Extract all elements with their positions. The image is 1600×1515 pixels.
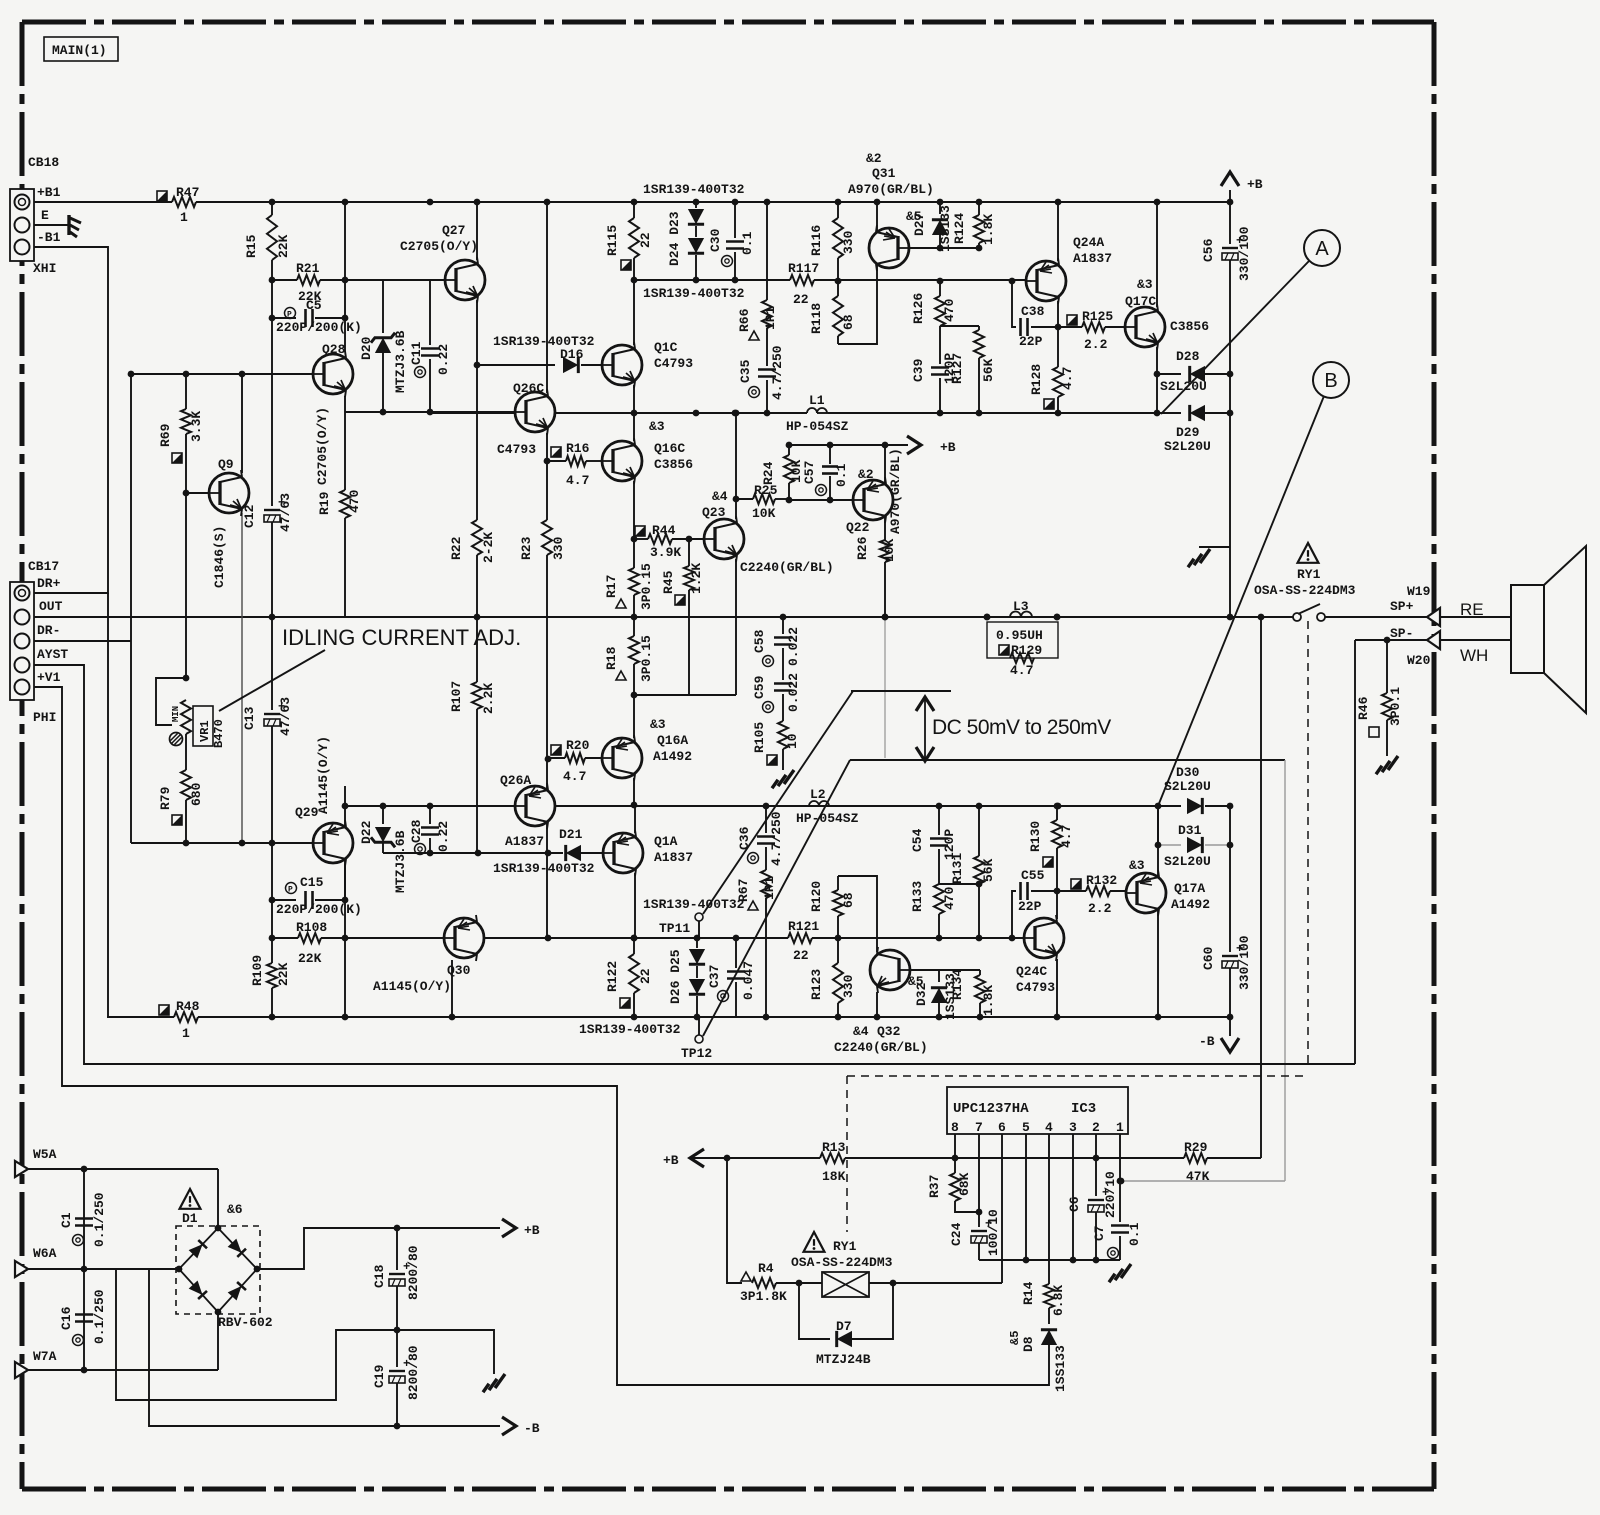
svg-text:&6: &6 xyxy=(227,1202,243,1217)
svg-text:HP-054SZ: HP-054SZ xyxy=(786,419,849,434)
svg-text:22: 22 xyxy=(793,948,809,963)
svg-text:56K: 56K xyxy=(981,858,996,882)
svg-text:330/100: 330/100 xyxy=(1237,226,1252,281)
svg-text:3P0.15: 3P0.15 xyxy=(639,635,654,682)
svg-text:OSA-SS-224DM3: OSA-SS-224DM3 xyxy=(1254,583,1356,598)
svg-text:RE: RE xyxy=(1460,600,1484,619)
svg-text:22K: 22K xyxy=(276,234,291,258)
svg-text:IDLING CURRENT ADJ.: IDLING CURRENT ADJ. xyxy=(282,625,521,650)
svg-text:C24: C24 xyxy=(949,1222,964,1246)
svg-text:1P1: 1P1 xyxy=(763,306,778,330)
svg-text:3P0.1: 3P0.1 xyxy=(1388,687,1403,726)
svg-text:R47: R47 xyxy=(176,185,199,200)
svg-text:R37: R37 xyxy=(927,1175,942,1198)
svg-text:R26: R26 xyxy=(855,536,870,560)
svg-text:Q22: Q22 xyxy=(846,520,870,535)
svg-text:0.1: 0.1 xyxy=(834,463,849,487)
svg-text:-B1: -B1 xyxy=(37,230,61,245)
svg-text:C54: C54 xyxy=(910,828,925,852)
svg-text:C4793: C4793 xyxy=(654,356,693,371)
svg-text:330: 330 xyxy=(551,536,566,560)
svg-text:R133: R133 xyxy=(910,881,925,912)
svg-text:R18: R18 xyxy=(604,646,619,670)
svg-text:22K: 22K xyxy=(276,962,291,986)
svg-text:A1492: A1492 xyxy=(653,749,692,764)
svg-text:D29: D29 xyxy=(1176,425,1200,440)
svg-text:R125: R125 xyxy=(1082,309,1113,324)
svg-text:10K: 10K xyxy=(882,538,897,562)
svg-text:Q9: Q9 xyxy=(218,457,234,472)
svg-text:22K: 22K xyxy=(298,951,322,966)
svg-text:C13: C13 xyxy=(242,706,257,730)
svg-text:C38: C38 xyxy=(1021,304,1045,319)
svg-text:MIN: MIN xyxy=(171,706,181,722)
svg-text:Q16C: Q16C xyxy=(654,441,685,456)
svg-text:-B: -B xyxy=(524,1421,540,1436)
svg-text:0.022: 0.022 xyxy=(786,673,801,712)
svg-text:8200/80: 8200/80 xyxy=(406,1245,421,1300)
svg-text:TP12: TP12 xyxy=(681,1046,712,1061)
svg-text:RY1: RY1 xyxy=(1297,567,1321,582)
svg-text:DC 50mV to 250mV: DC 50mV to 250mV xyxy=(932,716,1111,739)
svg-text:AYST: AYST xyxy=(37,647,68,662)
svg-text:R22: R22 xyxy=(449,536,464,560)
svg-text:S2L20U: S2L20U xyxy=(1164,439,1211,454)
svg-text:R134: R134 xyxy=(950,969,965,1000)
svg-text:47K: 47K xyxy=(1186,1169,1210,1184)
svg-text:8200/80: 8200/80 xyxy=(406,1345,421,1400)
svg-text:A1492: A1492 xyxy=(1171,897,1210,912)
svg-text:R121: R121 xyxy=(788,919,819,934)
svg-text:L2: L2 xyxy=(810,787,826,802)
svg-text:R122: R122 xyxy=(605,961,620,992)
svg-text:3P0.15: 3P0.15 xyxy=(639,563,654,610)
svg-text:L1: L1 xyxy=(809,393,825,408)
svg-text:R108: R108 xyxy=(296,920,327,935)
svg-text:C3856: C3856 xyxy=(654,457,693,472)
svg-text:C60: C60 xyxy=(1201,946,1216,970)
svg-text:R131: R131 xyxy=(950,853,965,884)
svg-text:D32: D32 xyxy=(914,982,929,1006)
svg-text:Q31: Q31 xyxy=(872,166,896,181)
svg-text:W19: W19 xyxy=(1407,584,1431,599)
svg-text:R105: R105 xyxy=(752,722,767,753)
svg-text:5: 5 xyxy=(1022,1120,1030,1135)
svg-text:R128: R128 xyxy=(1029,364,1044,395)
svg-text:R15: R15 xyxy=(244,234,259,258)
svg-text:Q16A: Q16A xyxy=(657,733,688,748)
svg-text:D21: D21 xyxy=(559,827,583,842)
svg-text:R4: R4 xyxy=(758,1261,774,1276)
svg-text:220P/200(K): 220P/200(K) xyxy=(276,902,362,917)
svg-text:Q1C: Q1C xyxy=(654,340,678,355)
svg-text:C39: C39 xyxy=(911,358,926,382)
svg-text:R117: R117 xyxy=(788,261,819,276)
svg-text:100/10: 100/10 xyxy=(986,1209,1001,1256)
svg-text:C55: C55 xyxy=(1021,868,1045,883)
svg-text:6.8K: 6.8K xyxy=(1051,1285,1066,1316)
svg-text:+B: +B xyxy=(524,1223,540,1238)
svg-text:R16: R16 xyxy=(566,441,590,456)
svg-text:0.1/250: 0.1/250 xyxy=(92,1289,107,1344)
svg-text:C58: C58 xyxy=(752,629,767,653)
svg-text:&3: &3 xyxy=(649,419,665,434)
svg-text:A1837: A1837 xyxy=(654,850,693,865)
svg-text:D8: D8 xyxy=(1021,1336,1036,1352)
svg-text:C36: C36 xyxy=(737,826,752,850)
svg-text:56K: 56K xyxy=(981,358,996,382)
svg-text:1: 1 xyxy=(182,1026,190,1041)
svg-text:A970(GR/BL): A970(GR/BL) xyxy=(848,182,934,197)
svg-text:C6: C6 xyxy=(1067,1196,1082,1212)
svg-text:22: 22 xyxy=(793,292,809,307)
svg-text:&4: &4 xyxy=(712,489,728,504)
svg-text:R132: R132 xyxy=(1086,873,1117,888)
svg-text:OUT: OUT xyxy=(39,599,63,614)
svg-text:Q24A: Q24A xyxy=(1073,235,1104,250)
svg-text:D24 D23: D24 D23 xyxy=(667,211,682,266)
svg-text:+B: +B xyxy=(663,1153,679,1168)
svg-text:Q27: Q27 xyxy=(442,223,465,238)
svg-text:2.2K: 2.2K xyxy=(481,683,496,714)
svg-text:1P1: 1P1 xyxy=(762,876,777,900)
svg-text:D20: D20 xyxy=(359,336,374,360)
svg-text:SP+: SP+ xyxy=(1390,599,1414,614)
svg-text:MTZJ24B: MTZJ24B xyxy=(816,1352,871,1367)
svg-text:+V1: +V1 xyxy=(37,670,61,685)
svg-text:0.1: 0.1 xyxy=(1127,1222,1142,1246)
svg-text:3: 3 xyxy=(1069,1120,1077,1135)
svg-text:W20: W20 xyxy=(1407,653,1431,668)
svg-text:R124: R124 xyxy=(952,213,967,244)
svg-text:R45: R45 xyxy=(661,570,676,594)
svg-text:RBV-602: RBV-602 xyxy=(218,1315,273,1330)
svg-text:R109: R109 xyxy=(250,955,265,986)
svg-text:P: P xyxy=(287,311,292,320)
svg-text:4.7/250: 4.7/250 xyxy=(770,345,785,400)
svg-text:DR+: DR+ xyxy=(37,576,61,591)
svg-text:C30: C30 xyxy=(708,228,723,252)
svg-text:OSA-SS-224DM3: OSA-SS-224DM3 xyxy=(791,1255,893,1270)
svg-text:47/63: 47/63 xyxy=(278,697,293,736)
svg-text:R21: R21 xyxy=(296,261,320,276)
svg-text:&4: &4 xyxy=(853,1024,869,1039)
svg-text:+B: +B xyxy=(940,440,956,455)
svg-text:A1837: A1837 xyxy=(505,834,544,849)
svg-text:C19: C19 xyxy=(372,1364,387,1388)
svg-text:120P: 120P xyxy=(942,353,957,384)
svg-text:C7: C7 xyxy=(1092,1225,1107,1241)
svg-text:0.22: 0.22 xyxy=(436,344,451,375)
svg-text:68: 68 xyxy=(841,892,856,908)
svg-text:R20: R20 xyxy=(566,738,590,753)
svg-text:E: E xyxy=(41,208,49,223)
svg-text:D22: D22 xyxy=(359,820,374,844)
svg-text:R23: R23 xyxy=(519,536,534,560)
svg-text:IC3: IC3 xyxy=(1071,1101,1096,1117)
svg-text:&3: &3 xyxy=(1129,858,1145,873)
svg-text:&5: &5 xyxy=(1008,1331,1022,1345)
svg-text:C56: C56 xyxy=(1201,238,1216,262)
svg-text:330: 330 xyxy=(841,230,856,254)
svg-text:C5: C5 xyxy=(306,298,322,313)
svg-text:R24: R24 xyxy=(761,461,776,485)
svg-text:R14: R14 xyxy=(1021,1281,1036,1305)
svg-text:4.7/250: 4.7/250 xyxy=(769,811,784,866)
svg-text:8: 8 xyxy=(951,1120,959,1135)
svg-text:330: 330 xyxy=(841,974,856,998)
svg-text:1SS133: 1SS133 xyxy=(1053,1345,1068,1392)
svg-text:C4793: C4793 xyxy=(1016,980,1055,995)
svg-text:470: 470 xyxy=(942,886,957,910)
svg-text:C18: C18 xyxy=(372,1264,387,1288)
svg-text:1SR139-400T32: 1SR139-400T32 xyxy=(643,286,745,301)
svg-text:PHI: PHI xyxy=(33,710,56,725)
svg-text:R120: R120 xyxy=(809,881,824,912)
svg-text:B: B xyxy=(1324,370,1337,392)
svg-text:D28: D28 xyxy=(1176,349,1200,364)
svg-text:22: 22 xyxy=(638,232,653,248)
svg-text:1SR139-400T32: 1SR139-400T32 xyxy=(643,897,745,912)
svg-text:Q17A: Q17A xyxy=(1174,881,1205,896)
svg-text:2.2: 2.2 xyxy=(1088,901,1112,916)
svg-text:WH: WH xyxy=(1460,646,1488,665)
svg-text:10K: 10K xyxy=(752,506,776,521)
svg-text:22: 22 xyxy=(638,968,653,984)
svg-text:0.047: 0.047 xyxy=(741,961,756,1000)
svg-text:220P/200(K): 220P/200(K) xyxy=(276,320,362,335)
svg-text:UPC1237HA: UPC1237HA xyxy=(953,1101,1029,1117)
svg-text:C28: C28 xyxy=(409,819,424,843)
svg-text:A1145(O/Y): A1145(O/Y) xyxy=(316,736,331,814)
svg-text:47/63: 47/63 xyxy=(278,493,293,532)
svg-text:C2240(GR/BL): C2240(GR/BL) xyxy=(740,560,834,575)
svg-text:22P: 22P xyxy=(1019,334,1043,349)
svg-text:4.7: 4.7 xyxy=(1060,367,1075,390)
svg-text:C16: C16 xyxy=(59,1306,74,1330)
svg-text:2.2: 2.2 xyxy=(1084,337,1108,352)
svg-text:C2705(O/Y): C2705(O/Y) xyxy=(315,407,330,485)
svg-text:R130: R130 xyxy=(1028,821,1043,852)
svg-text:68: 68 xyxy=(841,314,856,330)
svg-text:CB17: CB17 xyxy=(28,559,59,574)
svg-text:18K: 18K xyxy=(822,1169,846,1184)
svg-text:VR1: VR1 xyxy=(198,720,212,742)
svg-text:0.1: 0.1 xyxy=(740,231,755,255)
svg-text:4.7: 4.7 xyxy=(563,769,586,784)
svg-text:0.1/250: 0.1/250 xyxy=(92,1192,107,1247)
svg-text:C11: C11 xyxy=(409,341,424,365)
svg-text:R79: R79 xyxy=(158,786,173,810)
svg-text:S2L20U: S2L20U xyxy=(1164,854,1211,869)
svg-text:6: 6 xyxy=(998,1120,1006,1135)
svg-text:R115: R115 xyxy=(605,225,620,256)
svg-text:R107: R107 xyxy=(449,681,464,712)
svg-text:XHI: XHI xyxy=(33,261,56,276)
svg-text:3.9K: 3.9K xyxy=(650,545,681,560)
svg-text:W7A: W7A xyxy=(33,1349,57,1364)
svg-text:W6A: W6A xyxy=(33,1246,57,1261)
svg-text:Q30: Q30 xyxy=(447,963,471,978)
svg-text:TP11: TP11 xyxy=(659,921,690,936)
svg-text:1SR139-400T32: 1SR139-400T32 xyxy=(493,861,595,876)
svg-text:R126: R126 xyxy=(911,293,926,324)
svg-text:0.95UH: 0.95UH xyxy=(996,628,1043,643)
svg-text:C3856: C3856 xyxy=(1170,319,1209,334)
svg-text:A1837: A1837 xyxy=(1073,251,1112,266)
svg-text:R44: R44 xyxy=(652,523,676,538)
svg-text:4: 4 xyxy=(1045,1120,1053,1135)
svg-text:SP-: SP- xyxy=(1390,626,1413,641)
svg-text:1: 1 xyxy=(1116,1120,1124,1135)
svg-text:1.8K: 1.8K xyxy=(981,214,996,245)
svg-text:680: 680 xyxy=(189,782,204,806)
svg-text:RY1: RY1 xyxy=(833,1239,857,1254)
svg-text:CB18: CB18 xyxy=(28,155,59,170)
svg-text:W5A: W5A xyxy=(33,1147,57,1162)
svg-text:+B1: +B1 xyxy=(37,185,61,200)
svg-text:R48: R48 xyxy=(176,999,200,1014)
svg-text:-B: -B xyxy=(1199,1034,1215,1049)
svg-text:+B: +B xyxy=(1247,177,1263,192)
svg-text:R29: R29 xyxy=(1184,1140,1208,1155)
svg-text:C2705(O/Y): C2705(O/Y) xyxy=(400,239,478,254)
svg-text:3P1.8K: 3P1.8K xyxy=(740,1289,787,1304)
svg-text:R67: R67 xyxy=(736,879,751,902)
svg-text:R66: R66 xyxy=(737,308,752,332)
svg-text:2: 2 xyxy=(1092,1120,1100,1135)
svg-text:D16: D16 xyxy=(560,347,584,362)
svg-text:C59: C59 xyxy=(752,675,767,699)
svg-text:D30: D30 xyxy=(1176,765,1200,780)
svg-text:C37: C37 xyxy=(707,965,722,988)
svg-text:0.022: 0.022 xyxy=(786,627,801,666)
svg-text:10: 10 xyxy=(785,733,800,749)
svg-text:22P: 22P xyxy=(1018,899,1042,914)
svg-text:4.7: 4.7 xyxy=(1010,663,1033,678)
svg-text:A: A xyxy=(1315,238,1329,260)
svg-text:R13: R13 xyxy=(822,1140,846,1155)
svg-text:Q32: Q32 xyxy=(877,1024,901,1039)
svg-text:MAIN(1): MAIN(1) xyxy=(52,43,107,58)
svg-text:7: 7 xyxy=(975,1120,983,1135)
svg-text:D31: D31 xyxy=(1178,823,1202,838)
svg-text:A1145(O/Y): A1145(O/Y) xyxy=(373,979,451,994)
svg-text:Q26A: Q26A xyxy=(500,773,531,788)
svg-text:DR-: DR- xyxy=(37,623,60,638)
svg-text:C1846(S): C1846(S) xyxy=(212,526,227,588)
svg-text:&3: &3 xyxy=(650,717,666,732)
svg-text:R116: R116 xyxy=(809,225,824,256)
svg-text:HP-054SZ: HP-054SZ xyxy=(796,811,859,826)
svg-text:4.7: 4.7 xyxy=(566,473,589,488)
svg-text:MTZJ3.6B: MTZJ3.6B xyxy=(393,830,408,893)
svg-text:S2L20U: S2L20U xyxy=(1164,779,1211,794)
svg-text:MTZJ3.6B: MTZJ3.6B xyxy=(393,330,408,393)
svg-text:Q24C: Q24C xyxy=(1016,964,1047,979)
svg-text:Q1A: Q1A xyxy=(654,834,678,849)
svg-text:D27: D27 xyxy=(912,213,927,236)
svg-text:1: 1 xyxy=(180,210,188,225)
svg-text:1SR139-400T32: 1SR139-400T32 xyxy=(579,1022,681,1037)
svg-text:0.22: 0.22 xyxy=(436,821,451,852)
svg-text:R123: R123 xyxy=(809,969,824,1000)
svg-text:220/10: 220/10 xyxy=(1103,1171,1118,1218)
svg-text:&3: &3 xyxy=(1137,277,1153,292)
svg-text:B470: B470 xyxy=(212,719,226,748)
svg-text:1.8K: 1.8K xyxy=(981,985,996,1016)
svg-text:C15: C15 xyxy=(300,875,324,890)
svg-text:330/100: 330/100 xyxy=(1237,935,1252,990)
svg-text:D7: D7 xyxy=(836,1319,852,1334)
svg-text:470: 470 xyxy=(942,298,957,322)
svg-text:R17: R17 xyxy=(604,575,619,598)
svg-text:2-2K: 2-2K xyxy=(481,532,496,563)
svg-text:4.7: 4.7 xyxy=(1059,825,1074,848)
svg-text:1.2K: 1.2K xyxy=(689,563,704,594)
svg-text:C4793: C4793 xyxy=(497,442,536,457)
svg-text:D26 D25: D26 D25 xyxy=(668,949,683,1004)
svg-text:D1: D1 xyxy=(182,1211,198,1226)
svg-text:1SR139-400T32: 1SR139-400T32 xyxy=(643,182,745,197)
svg-text:3.3K: 3.3K xyxy=(189,411,204,442)
svg-text:R19: R19 xyxy=(317,491,332,515)
svg-text:C2240(GR/BL): C2240(GR/BL) xyxy=(834,1040,928,1055)
svg-text:C35: C35 xyxy=(738,359,753,383)
svg-text:R46: R46 xyxy=(1356,696,1371,720)
svg-text:P: P xyxy=(288,886,293,895)
svg-text:&2: &2 xyxy=(866,151,882,166)
svg-text:R69: R69 xyxy=(158,423,173,447)
svg-text:C1: C1 xyxy=(59,1212,74,1228)
svg-text:R118: R118 xyxy=(809,303,824,334)
svg-text:C57: C57 xyxy=(802,461,817,484)
svg-text:68K: 68K xyxy=(957,1172,972,1196)
svg-text:L3: L3 xyxy=(1013,599,1029,614)
svg-text:470: 470 xyxy=(347,489,362,513)
